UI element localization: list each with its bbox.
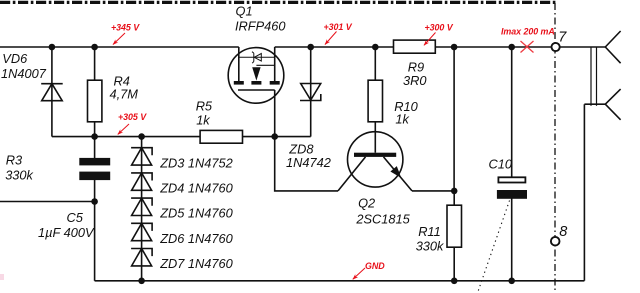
svg-text:1µF 400V: 1µF 400V bbox=[38, 225, 95, 240]
Q1 body diode bbox=[252, 52, 261, 64]
zener ZD7 bbox=[131, 249, 152, 266]
wire C10 column lower bbox=[511, 199, 513, 281]
svg-text:1N4007: 1N4007 bbox=[1, 66, 47, 81]
red arrow +301V bbox=[325, 32, 337, 45]
transistor Q1 gate electrode bbox=[238, 89, 275, 91]
svg-text:8: 8 bbox=[559, 224, 567, 240]
junction top rail at ZD8 bbox=[307, 44, 314, 51]
svg-text:+301 V: +301 V bbox=[324, 22, 353, 32]
capacitor C5 bbox=[79, 158, 110, 180]
wire Q1 drain lead bbox=[238, 47, 240, 81]
diode VD6 bbox=[41, 84, 63, 101]
transistor Q2 collector lead bbox=[338, 157, 366, 191]
transistor Q1 body diode line bbox=[239, 56, 275, 58]
svg-text:GND: GND bbox=[365, 261, 385, 271]
svg-text:ZD7 1N4760: ZD7 1N4760 bbox=[159, 256, 233, 271]
terminal 8 bbox=[551, 237, 560, 246]
capacitor C10 negative plate bbox=[497, 190, 527, 199]
junction ground at zener chain bbox=[138, 278, 145, 285]
dash-dot enclosure right border bbox=[554, 3, 556, 293]
heater double line right bbox=[596, 47, 598, 106]
dash-dot enclosure top border bbox=[0, 1, 556, 4]
wire R9 right node column bbox=[453, 47, 455, 191]
wire +305V mid rail bbox=[52, 136, 311, 138]
capacitor C10 positive plate bbox=[498, 177, 525, 182]
svg-text:IRFP460: IRFP460 bbox=[235, 19, 286, 34]
svg-text:Q1: Q1 bbox=[236, 3, 253, 18]
wire Q1 source lead bbox=[274, 47, 276, 81]
svg-text:R11: R11 bbox=[418, 224, 441, 239]
wire Q2 emitter to R11 node bbox=[412, 190, 454, 192]
red arrow GND bbox=[353, 268, 365, 279]
red arrow +305V bbox=[118, 124, 129, 134]
transistor Q2 emitter lead bbox=[384, 157, 413, 191]
wire R10 column bbox=[374, 47, 376, 153]
wire C5 column lower to ground bbox=[94, 180, 96, 281]
wire R4 column bbox=[94, 47, 96, 137]
connector arrow lower bbox=[605, 89, 620, 120]
Q1 source bar bbox=[270, 81, 280, 85]
junction top rail at C10 bbox=[508, 44, 515, 51]
svg-text:3R0: 3R0 bbox=[403, 73, 427, 88]
wire lower heater lead bbox=[584, 103, 605, 105]
wire right return vertical bbox=[583, 104, 585, 281]
resistor R4 bbox=[88, 80, 102, 122]
resistor R5 bbox=[200, 130, 242, 143]
junction ground at C10 bbox=[508, 278, 515, 285]
wire Q1 gate lead down to node bbox=[274, 90, 276, 137]
junction mid rail at R4 bbox=[91, 133, 98, 140]
junction mid rail at zener chain bbox=[138, 133, 145, 140]
junction top rail at R4 bbox=[91, 44, 98, 51]
svg-text:C5: C5 bbox=[67, 210, 84, 225]
svg-text:+300 V: +300 V bbox=[425, 23, 454, 33]
heater double line left bbox=[590, 47, 592, 106]
transistor Q2 base bar bbox=[354, 153, 396, 157]
terminal 7 bbox=[552, 43, 560, 51]
svg-text:1k: 1k bbox=[196, 112, 210, 127]
pink corner mark bbox=[0, 274, 4, 280]
wire +345V top rail left bbox=[0, 46, 239, 48]
wire ZD8 branch bbox=[310, 47, 312, 137]
dotted leader line near C10 bbox=[478, 201, 510, 293]
svg-text:2SC1815: 2SC1815 bbox=[355, 211, 410, 226]
svg-text:VD6: VD6 bbox=[2, 51, 28, 66]
junction C5 tap bbox=[91, 198, 98, 205]
wire C10 column upper bbox=[511, 47, 513, 177]
svg-text:+345 V: +345 V bbox=[111, 23, 140, 33]
svg-text:1k: 1k bbox=[395, 111, 409, 126]
transistor Q1 envelope bbox=[228, 48, 284, 104]
svg-text:330k: 330k bbox=[416, 238, 444, 253]
Q1 body bar bbox=[251, 81, 261, 85]
junction top rail at R10 bbox=[372, 44, 379, 51]
svg-text:1N4742: 1N4742 bbox=[286, 155, 331, 170]
resistor R10 bbox=[368, 80, 382, 122]
svg-text:R3: R3 bbox=[6, 153, 22, 168]
svg-text:C10: C10 bbox=[489, 156, 513, 171]
wire R3 stub to left edge bbox=[0, 201, 95, 203]
wire R11 column bbox=[453, 191, 455, 281]
red arrow +300V bbox=[424, 33, 436, 46]
Q1 drain bar bbox=[234, 81, 244, 85]
svg-text:ZD6 1N4760: ZD6 1N4760 bbox=[159, 231, 233, 246]
zener ZD6 bbox=[131, 223, 152, 240]
wire VD6 branch bbox=[51, 47, 53, 137]
wire zener chain column bbox=[141, 137, 143, 281]
wire from terminal 7 to arrow bbox=[560, 46, 606, 48]
red arrow +345V bbox=[113, 33, 125, 45]
zener ZD8 bbox=[300, 84, 321, 101]
junction gate node bbox=[271, 133, 278, 140]
svg-text:R5: R5 bbox=[196, 98, 213, 113]
svg-text:Imax 200 mA: Imax 200 mA bbox=[501, 26, 555, 36]
junction top rail right of R9 bbox=[451, 44, 458, 51]
resistor R11 bbox=[447, 205, 462, 247]
zener ZD3 bbox=[131, 148, 152, 165]
wire GND bottom rail bbox=[95, 280, 585, 282]
svg-text:R9: R9 bbox=[408, 59, 424, 74]
resistor R9 bbox=[394, 40, 436, 53]
svg-text:+305 V: +305 V bbox=[118, 112, 147, 122]
transistor Q2 envelope bbox=[348, 132, 403, 187]
junction top rail at VD6 bbox=[49, 44, 56, 51]
svg-text:330k: 330k bbox=[5, 168, 33, 183]
wire gate node down and right to Q2 collector bbox=[275, 137, 338, 191]
transistor Q2 emitter arrow bbox=[390, 166, 401, 178]
connector arrow upper bbox=[605, 31, 620, 63]
Q1 substrate arrow bbox=[252, 67, 260, 80]
red cross current limit marker bbox=[521, 41, 534, 53]
zener ZD5 bbox=[131, 198, 152, 215]
wire top rail right of Q1 bbox=[275, 46, 551, 48]
svg-text:4,7M: 4,7M bbox=[110, 86, 139, 101]
transistor Q1 source-body link bbox=[256, 64, 274, 66]
zener ZD4 bbox=[131, 173, 152, 190]
svg-text:7: 7 bbox=[558, 29, 567, 45]
wire C5 column upper bbox=[94, 137, 96, 158]
svg-text:Q2: Q2 bbox=[358, 196, 375, 211]
junction ground at R11 bbox=[451, 278, 458, 285]
svg-text:ZD4 1N4760: ZD4 1N4760 bbox=[159, 181, 233, 196]
svg-text:ZD3 1N4752: ZD3 1N4752 bbox=[159, 155, 233, 170]
svg-text:ZD5 1N4760: ZD5 1N4760 bbox=[159, 206, 233, 221]
junction emitter R11 node bbox=[451, 188, 458, 195]
